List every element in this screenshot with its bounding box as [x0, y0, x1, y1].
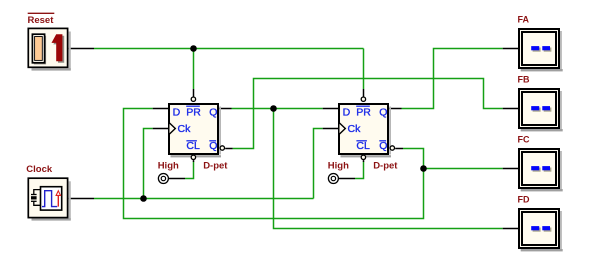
svg-text:CL: CL [186, 140, 200, 152]
svg-text:D: D [173, 107, 181, 119]
svg-text:FA: FA [518, 14, 530, 24]
svg-text:FD: FD [518, 194, 530, 204]
svg-text:Clock: Clock [26, 164, 53, 175]
svg-text:Q: Q [209, 140, 217, 152]
svg-text:Ck: Ck [348, 123, 362, 135]
svg-text:Q: Q [209, 107, 217, 119]
svg-text:D-pet: D-pet [373, 160, 398, 171]
svg-text:FC: FC [518, 134, 530, 144]
svg-text:High: High [158, 160, 179, 171]
svg-text:D-pet: D-pet [203, 160, 228, 171]
svg-text:FB: FB [518, 74, 530, 84]
svg-text:High: High [328, 160, 349, 171]
svg-text:Ck: Ck [178, 123, 192, 135]
svg-text:CL: CL [356, 140, 370, 152]
svg-text:D: D [343, 107, 351, 119]
svg-text:Q: Q [379, 107, 387, 119]
svg-text:PR: PR [356, 107, 371, 119]
svg-text:Reset: Reset [28, 15, 55, 26]
svg-text:Q: Q [379, 140, 387, 152]
svg-text:PR: PR [186, 107, 201, 119]
